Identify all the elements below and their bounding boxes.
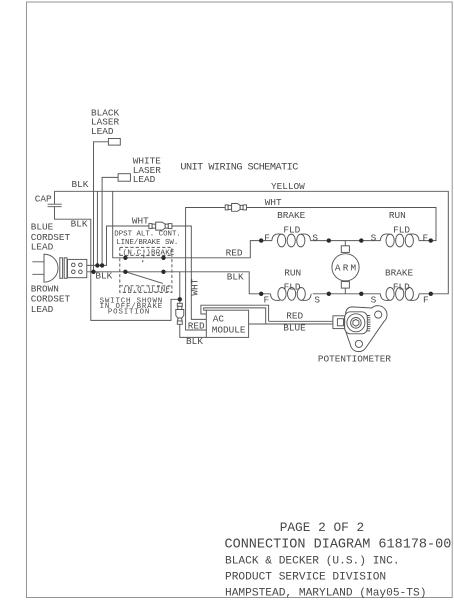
wire: cordset upper lead up and across switch top to AC module	[87, 226, 207, 319]
potentiometer terminal housing	[333, 316, 345, 329]
run field coil FLD (top right)	[380, 234, 419, 247]
svg-text:BRAKE: BRAKE	[277, 210, 306, 221]
svg-text:FLD: FLD	[393, 281, 410, 292]
svg-text:F: F	[423, 294, 429, 305]
svg-text:AC: AC	[213, 314, 225, 325]
AC module box U1	[206, 310, 248, 337]
wire: white laser lead down to cordset junction	[102, 177, 118, 265]
potentiometer nut	[353, 319, 359, 326]
svg-text:RED: RED	[286, 311, 303, 322]
switch mechanical link (dashed)	[142, 250, 144, 263]
plug body	[44, 254, 58, 282]
armature ARM stub bottom	[344, 288, 346, 294]
wire: cordset lower BLK lead across switch, down to motor bottom left	[87, 272, 271, 294]
plug prongs	[32, 262, 44, 275]
svg-text:S: S	[371, 232, 377, 243]
wire: BLUE to potentiometer	[249, 323, 333, 325]
svg-text:POSITION: POSITION	[108, 308, 150, 316]
wire: inline connector to AC module bottom corner (BLK)	[180, 323, 207, 337]
svg-text:POTENTIOMETER: POTENTIOMETER	[318, 353, 392, 364]
cordset ferrite bar 2	[64, 258, 67, 279]
inline connector J3 vertical above AC module	[176, 303, 184, 324]
wire: motor bottom middle segment	[313, 293, 381, 295]
brake field coil FLD (bottom right)	[380, 288, 419, 301]
capacitor C1 vertical lead top	[54, 191, 56, 204]
wire: yellow branch to N.C. contacts then RED to motor top	[113, 191, 272, 257]
svg-text:BLK: BLK	[227, 271, 244, 282]
svg-text:PAGE 2 OF 2: PAGE 2 OF 2	[280, 520, 364, 535]
svg-text:RED: RED	[226, 247, 243, 258]
svg-text:F: F	[423, 232, 429, 243]
inline connector J2 on switch WHT wire	[149, 222, 172, 230]
armature circle	[332, 254, 359, 281]
svg-text:BLK: BLK	[72, 179, 89, 190]
brake field coil FLD (top left)	[272, 234, 311, 247]
svg-text:(N.C.)BRAKE: (N.C.)BRAKE	[123, 250, 175, 258]
svg-text:S: S	[314, 294, 320, 305]
svg-text:CONNECTION DIAGRAM 618178-00: CONNECTION DIAGRAM 618178-00	[225, 538, 452, 553]
junction dots	[91, 238, 433, 301]
potentiometer ear hole bottom	[355, 340, 362, 347]
svg-text:WHT: WHT	[189, 278, 200, 295]
black laser lead terminal	[108, 139, 120, 146]
svg-text:RUN: RUN	[389, 210, 406, 221]
svg-text:HAMPSTEAD, MARYLAND (May05-TS): HAMPSTEAD, MARYLAND (May05-TS)	[225, 587, 426, 599]
svg-text:F: F	[264, 294, 270, 305]
potentiometer terminal inner	[337, 319, 343, 326]
potentiometer ear hole top	[375, 311, 382, 318]
label: WHITE LASER LEAD	[133, 156, 162, 186]
svg-text:LEAD: LEAD	[31, 242, 54, 253]
svg-text:FLD: FLD	[283, 224, 300, 235]
label: BLACK LASER LEAD	[91, 107, 120, 137]
wire: drop from BLK wire to inline connector	[179, 272, 181, 304]
svg-text:BLK: BLK	[95, 270, 112, 281]
svg-text:F: F	[264, 232, 270, 243]
svg-text:YELLOW: YELLOW	[271, 181, 305, 192]
svg-text:BLK: BLK	[186, 336, 203, 347]
switch dashed enclosure	[120, 247, 172, 292]
wire: motor top middle segment	[310, 240, 380, 242]
svg-text:BLK: BLK	[71, 218, 88, 229]
run field coil FLD (bottom left)	[271, 288, 312, 301]
wire: RED to potentiometer	[269, 320, 333, 322]
connector block holes	[72, 263, 76, 267]
wire: motor top right segment, WHT return over top through connector, down to AC module	[186, 208, 436, 331]
switch blade	[125, 272, 162, 284]
white laser lead terminal	[118, 174, 130, 182]
svg-text:LEAD: LEAD	[133, 174, 156, 185]
svg-text:(N.O.)LINE: (N.O.)LINE	[123, 286, 171, 294]
svg-text:LINE/BRAKE SW.: LINE/BRAKE SW.	[116, 239, 178, 247]
wire: yellow branch down to cordset junction	[96, 191, 98, 265]
capacitor C1 lead bottom + wire to label box left rail	[55, 207, 180, 321]
svg-text:DPST ALT. CONT.: DPST ALT. CONT.	[114, 230, 181, 238]
wire: AC module hook inner	[204, 308, 266, 324]
svg-text:BRAKE: BRAKE	[385, 268, 414, 279]
svg-text:BLACK & DECKER (U.S.) INC.: BLACK & DECKER (U.S.) INC.	[225, 555, 400, 567]
label: SWITCH SHOWN IN OFF/BRAKE POSITION	[100, 298, 163, 317]
svg-text:MODULE: MODULE	[212, 324, 246, 335]
svg-text:FLD: FLD	[393, 224, 410, 235]
armature brush top	[341, 246, 349, 253]
cordset connector block	[68, 259, 87, 277]
potentiometer plate	[345, 306, 387, 352]
inline connector J1 on upper WHT wire	[225, 204, 246, 212]
potentiometer inner ring	[351, 318, 362, 329]
wire: AC module hook outer	[201, 305, 269, 321]
label: BROWN CORDSET LEAD	[31, 283, 71, 315]
wire: yellow top bus down right side to motor bottom	[55, 191, 449, 293]
svg-text:ARM: ARM	[335, 263, 358, 274]
potentiometer outer ring	[347, 314, 365, 332]
svg-text:CAP: CAP	[35, 193, 52, 204]
svg-text:RUN: RUN	[284, 268, 301, 279]
svg-text:WHT: WHT	[265, 197, 282, 208]
potentiometer knurl ticks	[367, 316, 371, 331]
svg-text:S: S	[312, 232, 318, 243]
svg-text:LEAD: LEAD	[31, 304, 54, 315]
label: BLUE CORDSET LEAD	[31, 222, 71, 253]
cordset ferrite bar 1	[60, 258, 63, 279]
svg-text:S: S	[371, 294, 377, 305]
svg-text:UNIT WIRING SCHEMATIC: UNIT WIRING SCHEMATIC	[180, 162, 298, 173]
armature brush bottom	[341, 282, 349, 289]
svg-text:LEAD: LEAD	[91, 126, 114, 137]
wire: black laser lead down to BLK junction	[94, 142, 109, 272]
svg-text:PRODUCT SERVICE DIVISION: PRODUCT SERVICE DIVISION	[225, 572, 386, 584]
armature ARM stub top	[344, 241, 346, 246]
svg-text:RED: RED	[188, 321, 205, 332]
svg-text:BLUE: BLUE	[283, 323, 306, 334]
svg-text:WHT: WHT	[132, 216, 149, 227]
potentiometer knob body	[345, 312, 368, 334]
svg-text:FLD: FLD	[284, 281, 301, 292]
capacitor C1 plates	[48, 204, 62, 207]
